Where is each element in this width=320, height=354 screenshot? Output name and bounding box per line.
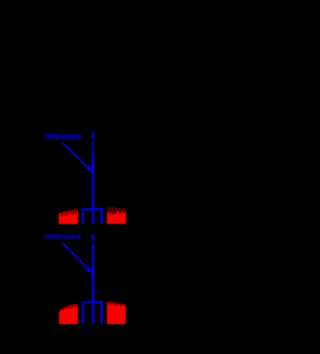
svg-text:reference: reference <box>45 132 82 143</box>
svg-text:reference: reference <box>45 233 82 242</box>
